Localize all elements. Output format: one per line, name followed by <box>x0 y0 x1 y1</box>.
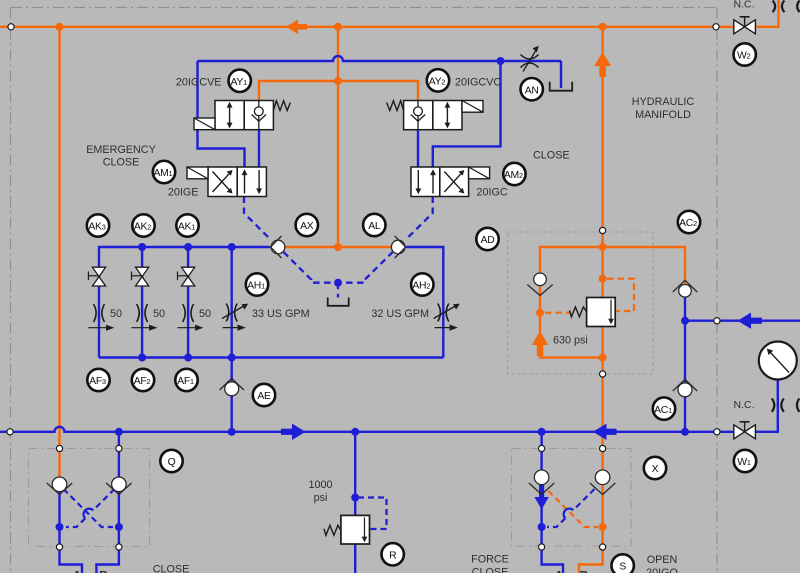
shutoff valve AK3 <box>88 267 105 286</box>
svg-text:psi: psi <box>314 492 328 504</box>
svg-text:33 US GPM: 33 US GPM <box>252 308 310 320</box>
manifold boundary left <box>10 8 12 573</box>
check valve Q left <box>47 477 72 495</box>
svg-text:B: B <box>99 569 108 573</box>
variable orifice AH2 <box>434 304 460 331</box>
wire blue 20IGCVE to 20IGE <box>258 130 260 167</box>
node AN <box>521 78 543 100</box>
wire orange pilot-supply header to CV valves <box>259 81 418 101</box>
node AE <box>253 384 275 406</box>
wire orange between shuttle valves <box>285 246 392 248</box>
wire blue bottom rail <box>99 356 443 358</box>
section box S <box>512 449 632 547</box>
svg-text:FORCE: FORCE <box>471 554 509 566</box>
arrow blue main line left <box>593 424 617 440</box>
wire blue Q right leg <box>96 432 119 573</box>
node AF2 <box>132 369 154 391</box>
arrow blue force-close down <box>534 484 548 510</box>
svg-text:OPEN: OPEN <box>647 554 678 566</box>
node AH2 <box>411 273 433 295</box>
node Q <box>160 450 182 472</box>
svg-text:N.C.: N.C. <box>734 399 755 411</box>
wire blue section S left leg <box>542 432 563 573</box>
spring of 630psi relief <box>570 307 587 317</box>
pilot wire blue dashed from 20IGE to shuttle AX <box>244 197 270 240</box>
wire orange riser to main line and section S <box>601 374 603 472</box>
node AK1 <box>176 214 198 236</box>
node AK3 <box>87 214 109 236</box>
pilot wire blue dashed from 20IGC to shuttle AL <box>406 197 432 240</box>
svg-text:MANIFOLD: MANIFOLD <box>635 109 691 121</box>
svg-text:20IGCVC: 20IGCVC <box>455 77 501 89</box>
svg-text:20IGO: 20IGO <box>646 567 678 573</box>
wire blue left rail <box>99 247 270 358</box>
svg-text:AF1: AF1 <box>177 376 194 387</box>
svg-text:20IGE: 20IGE <box>168 187 199 199</box>
svg-text:R: R <box>389 551 397 562</box>
node W1 <box>734 450 756 472</box>
node AC2 <box>678 211 700 233</box>
hand valve W2 <box>734 17 756 34</box>
solenoid valve U-20IGC body <box>411 167 469 197</box>
variable orifice AH1 <box>222 304 248 331</box>
relief valve 630psi body <box>587 298 616 327</box>
svg-text:AC2: AC2 <box>679 218 697 229</box>
svg-text:1000: 1000 <box>308 479 332 491</box>
tank symbol AN <box>550 82 573 91</box>
wire orange segment into Q check valve <box>58 449 60 480</box>
node AF1 <box>175 369 197 391</box>
svg-text:20IGC: 20IGC <box>477 187 508 199</box>
wire blue AC drop <box>684 298 686 432</box>
wire blue supply from right edge <box>685 320 800 322</box>
wire orange supply bus top <box>0 0 779 27</box>
wire blue bus to tank symbol <box>560 61 562 88</box>
svg-text:B: B <box>580 569 589 573</box>
svg-text:32 US GPM: 32 US GPM <box>371 308 429 320</box>
svg-text:S: S <box>619 562 626 573</box>
solenoid box of 20IGCVC <box>462 101 483 113</box>
node W2 <box>734 43 756 65</box>
wire blue 32GPM branch <box>406 247 443 358</box>
svg-text:CLOSE: CLOSE <box>103 157 140 169</box>
arrow blue main line right <box>281 424 306 440</box>
svg-text:AH2: AH2 <box>412 281 430 292</box>
solenoid valve U-20IGCVE body <box>215 101 273 130</box>
svg-text:AF2: AF2 <box>134 376 151 387</box>
svg-text:50: 50 <box>199 308 211 320</box>
svg-text:AL: AL <box>368 221 381 232</box>
pilot wire orange dashed from 630 riser to relief valve <box>607 279 634 311</box>
spring of 20IGCVC <box>387 101 404 111</box>
tank symbol center pilot <box>328 298 349 306</box>
svg-text:AX: AX <box>300 221 314 232</box>
coupling at gauge leg <box>772 399 784 412</box>
wire orange riser through 630psi section <box>601 231 603 375</box>
check valve AC1 <box>673 379 697 397</box>
wire blue bus right leg to 20IGC <box>433 61 501 167</box>
node S <box>612 554 634 573</box>
svg-text:W1: W1 <box>737 457 751 468</box>
wire blue bus left leg to 20IGE <box>198 61 245 167</box>
svg-text:EMERGENCY: EMERGENCY <box>86 144 156 156</box>
manifold boundary right <box>716 8 718 573</box>
svg-text:W2: W2 <box>737 51 751 62</box>
check valve S left <box>529 470 554 495</box>
section box Q <box>29 449 150 547</box>
pressure gauge <box>759 342 797 380</box>
coupling at right edge bottom <box>797 399 800 412</box>
svg-text:CLOSE: CLOSE <box>153 564 190 573</box>
pilot wire blue dashed shuttle V to tank <box>284 252 393 298</box>
pilot wire blue dashed crossover in section S (hop) <box>547 489 595 527</box>
svg-text:AF3: AF3 <box>89 376 106 387</box>
wire blue main line (hop over orange at x59.5) <box>0 380 778 432</box>
wire orange section S right leg lower <box>579 484 603 573</box>
shuttle valve AL <box>391 236 405 258</box>
svg-text:AY1: AY1 <box>230 77 247 88</box>
pilot wire blue dashed crossover in section Q <box>64 489 114 527</box>
arrow on orange bus (left) <box>286 20 307 35</box>
svg-text:50: 50 <box>153 308 165 320</box>
node AC1 <box>653 397 675 419</box>
svg-text:630 psi: 630 psi <box>553 335 588 347</box>
orifice 50 AF1 <box>177 304 203 331</box>
svg-text:AK3: AK3 <box>88 222 105 233</box>
wire blue AK2 branch <box>141 247 143 358</box>
svg-text:AM1: AM1 <box>154 168 173 179</box>
check valve S right <box>590 470 615 495</box>
check valve 630 right <box>673 280 697 297</box>
relief valve R body <box>341 515 370 544</box>
svg-text:A: A <box>555 569 564 573</box>
node AK2 <box>132 214 154 236</box>
orifice 50 AF3 <box>88 304 114 331</box>
solenoid box of 20IGCVE <box>194 118 215 130</box>
solenoid valve U-20IGCVC body <box>404 101 462 130</box>
node AY2 <box>427 69 449 91</box>
svg-text:AK1: AK1 <box>178 222 195 233</box>
svg-text:N.C.: N.C. <box>734 0 755 11</box>
svg-text:CLOSE: CLOSE <box>472 567 509 573</box>
svg-text:A: A <box>73 569 82 573</box>
check valve AE <box>220 378 244 396</box>
node blue junctions <box>56 57 690 531</box>
section box 630psi <box>508 232 654 374</box>
svg-text:X: X <box>652 464 659 475</box>
coupling at right edge top <box>797 1 800 13</box>
svg-text:Q: Q <box>168 457 176 468</box>
wire blue relief R branch <box>354 432 356 573</box>
node AL <box>363 214 385 236</box>
node AX <box>296 214 318 236</box>
hand valve W1 <box>734 422 756 439</box>
svg-text:AY2: AY2 <box>429 77 446 88</box>
arrow orange riser up <box>594 52 611 77</box>
wire orange drop left (to section Q) <box>58 27 60 449</box>
spring of 20IGCVE <box>273 101 290 111</box>
pilot wire orange dashed to 630 relief spring <box>545 312 570 314</box>
orifice 50 AF2 <box>131 304 157 331</box>
svg-text:20IGCVE: 20IGCVE <box>176 77 222 89</box>
flow control AN <box>521 46 539 72</box>
pilot wire orange dashed crossover in section S <box>549 491 599 527</box>
svg-text:AD: AD <box>481 235 495 246</box>
pilot wire blue dashed crossover in section Q (hop) <box>66 489 115 527</box>
solenoid box of 20IGC <box>469 167 490 179</box>
node AD <box>476 228 498 250</box>
wire blue 20IGCVC to 20IGC <box>417 130 419 167</box>
node AY1 <box>229 70 251 92</box>
shutoff valve AK1 <box>178 267 195 286</box>
svg-text:CLOSE: CLOSE <box>533 150 570 162</box>
solenoid valve U-20IGE body <box>208 167 266 197</box>
check valve 630 left <box>527 273 552 296</box>
wire orange 630psi left leg <box>540 286 603 358</box>
arrow blue supply left <box>738 313 763 329</box>
svg-text:AE: AE <box>257 391 271 402</box>
spring of relief R <box>324 525 341 535</box>
svg-text:AH1: AH1 <box>247 281 265 292</box>
shuttle valve AX <box>271 236 285 258</box>
svg-text:50: 50 <box>110 308 122 320</box>
coupling at W2 outlet <box>773 1 785 13</box>
shutoff valve AK2 <box>132 267 149 286</box>
pilot wire blue dashed relief R <box>358 498 387 530</box>
manifold boundary top <box>11 7 717 9</box>
node AM2 <box>503 163 525 185</box>
svg-text:AM2: AM2 <box>504 170 523 181</box>
wire orange center drop <box>337 27 339 247</box>
node orange bus junctions <box>56 23 607 531</box>
check valve Q right <box>106 477 131 495</box>
wire orange 630psi header <box>540 247 685 285</box>
svg-text:HYDRAULIC: HYDRAULIC <box>632 96 695 108</box>
wire orange main riser right <box>601 27 603 231</box>
node X <box>644 457 666 479</box>
solenoid box of 20IGE <box>187 167 208 179</box>
node R <box>382 543 404 565</box>
node AH1 <box>246 273 268 295</box>
node AM1 <box>153 161 175 183</box>
wire blue AK1 branch <box>187 247 189 358</box>
wire blue tank bus (with hop over orange riser) <box>198 56 562 61</box>
wire blue Q left leg lower <box>60 491 83 573</box>
node AF3 <box>87 369 109 391</box>
arrow orange 630psi up <box>532 331 548 356</box>
svg-text:AK2: AK2 <box>134 222 151 233</box>
wire blue 33GPM branch <box>230 247 232 432</box>
svg-text:AC1: AC1 <box>654 405 672 416</box>
svg-text:AN: AN <box>525 85 539 96</box>
